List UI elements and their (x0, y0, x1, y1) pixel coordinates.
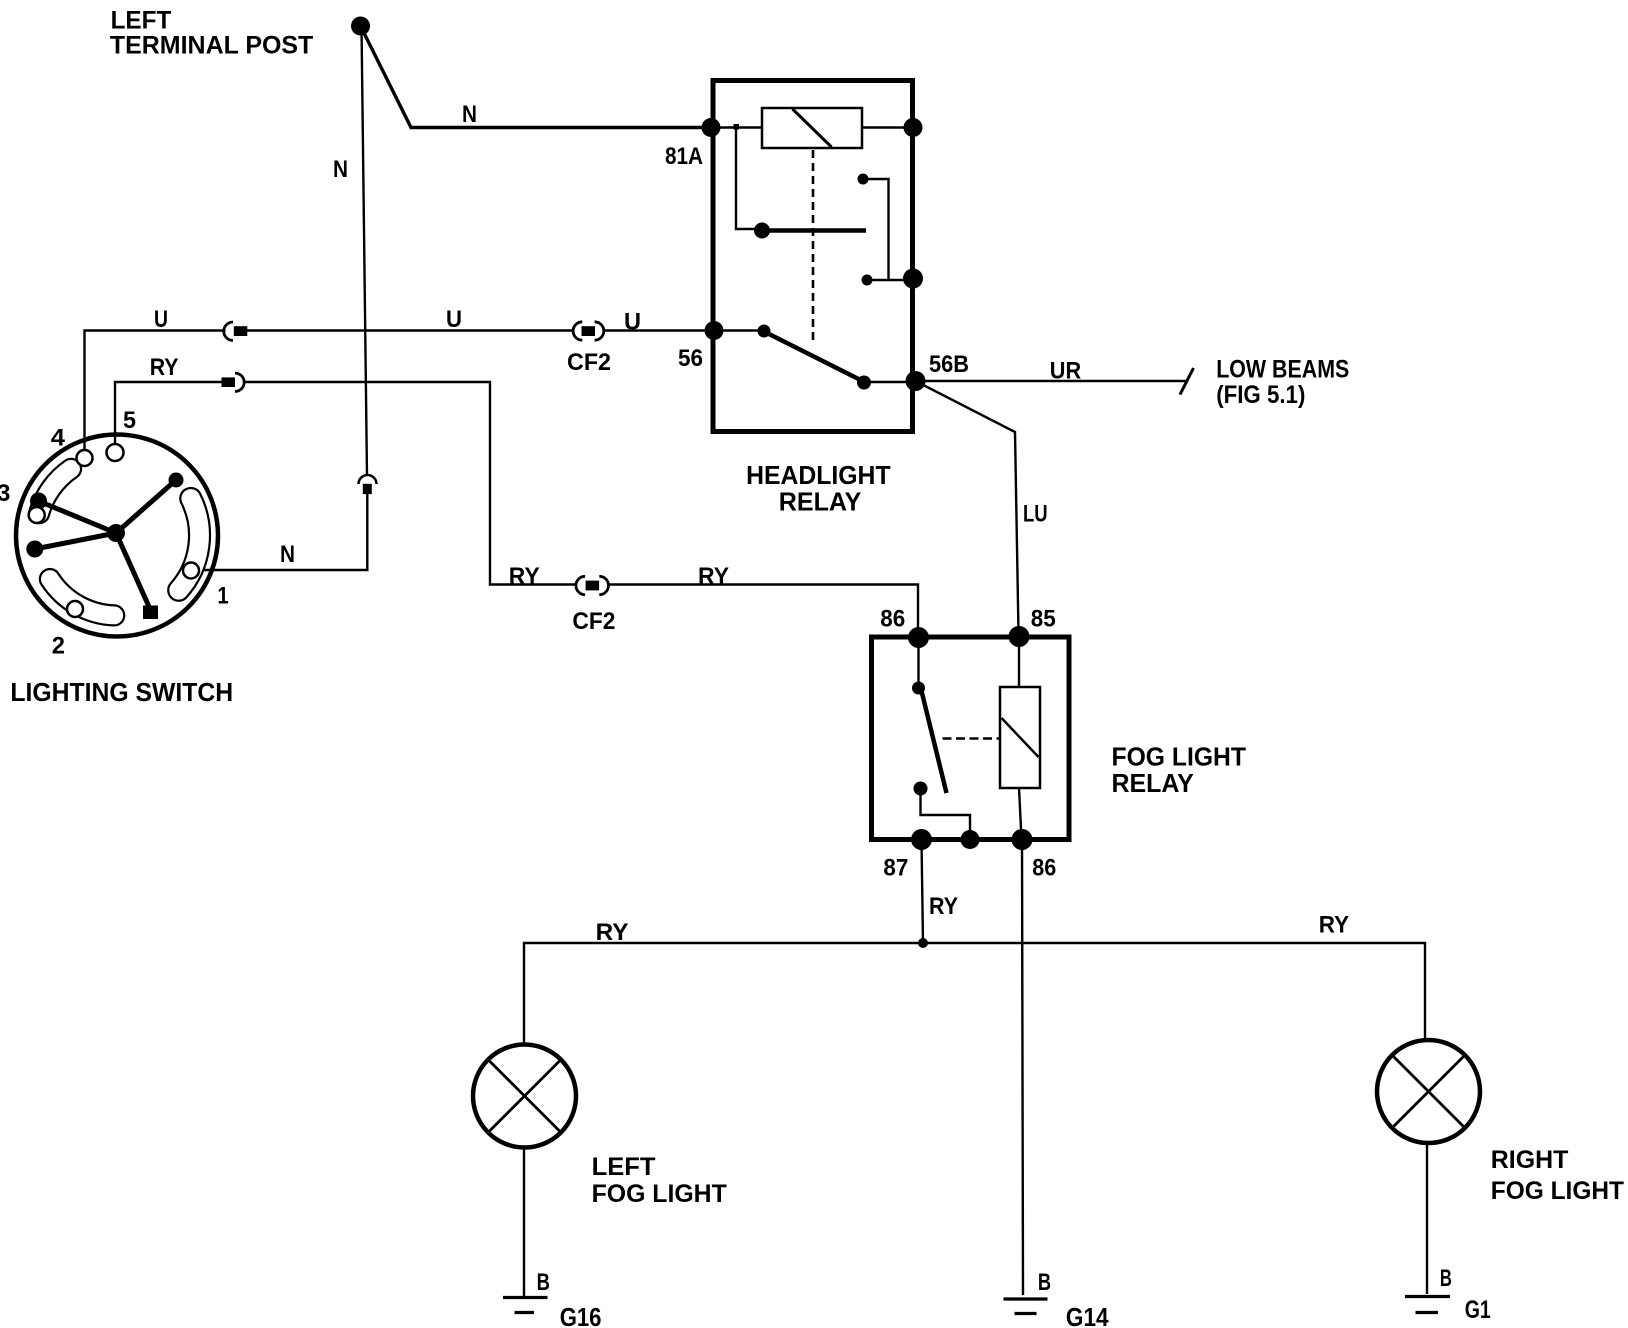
svg-text:RY: RY (596, 919, 629, 946)
svg-text:1: 1 (217, 583, 228, 610)
svg-text:G1: G1 (1465, 1296, 1491, 1324)
svg-text:CF2: CF2 (567, 349, 611, 376)
svg-text:LEFT: LEFT (111, 6, 172, 34)
svg-text:U: U (446, 306, 462, 333)
svg-text:RY: RY (698, 563, 729, 590)
svg-text:RY: RY (929, 893, 958, 920)
svg-text:N: N (280, 541, 295, 568)
svg-text:86: 86 (880, 605, 905, 632)
svg-text:RELAY: RELAY (1112, 768, 1194, 798)
svg-text:G16: G16 (560, 1302, 602, 1328)
svg-text:HEADLIGHT: HEADLIGHT (746, 460, 891, 490)
svg-text:UR: UR (1050, 357, 1081, 384)
svg-text:B: B (1440, 1265, 1452, 1292)
svg-text:LOW BEAMS: LOW BEAMS (1216, 355, 1349, 383)
svg-text:RIGHT: RIGHT (1491, 1146, 1569, 1174)
svg-text:56B: 56B (929, 351, 969, 378)
svg-text:56: 56 (678, 345, 703, 372)
svg-text:B: B (1038, 1269, 1051, 1296)
svg-text:86: 86 (1032, 855, 1056, 882)
svg-text:RY: RY (150, 354, 179, 381)
svg-text:LU: LU (1023, 500, 1048, 527)
svg-text:CF2: CF2 (572, 608, 615, 635)
svg-text:87: 87 (883, 855, 908, 882)
svg-text:RELAY: RELAY (779, 487, 862, 517)
svg-text:FOG LIGHT: FOG LIGHT (592, 1180, 727, 1208)
svg-text:U: U (154, 306, 168, 333)
svg-text:RY: RY (509, 563, 540, 590)
svg-text:85: 85 (1031, 605, 1056, 632)
svg-text:5: 5 (123, 407, 136, 434)
svg-text:(FIG 5.1): (FIG 5.1) (1216, 381, 1305, 409)
svg-text:B: B (537, 1269, 550, 1296)
svg-text:2: 2 (52, 632, 65, 659)
svg-text:U: U (624, 309, 641, 336)
svg-text:LIGHTING SWITCH: LIGHTING SWITCH (10, 677, 233, 707)
svg-text:3: 3 (0, 480, 10, 507)
svg-text:N: N (462, 101, 477, 128)
svg-text:4: 4 (51, 424, 66, 451)
svg-text:N: N (333, 156, 348, 183)
svg-text:81A: 81A (665, 143, 703, 170)
svg-text:RY: RY (1319, 911, 1349, 938)
svg-text:FOG LIGHT: FOG LIGHT (1491, 1177, 1624, 1205)
svg-text:TERMINAL POST: TERMINAL POST (110, 32, 313, 60)
svg-text:LEFT: LEFT (592, 1153, 656, 1181)
svg-text:G14: G14 (1066, 1302, 1109, 1328)
